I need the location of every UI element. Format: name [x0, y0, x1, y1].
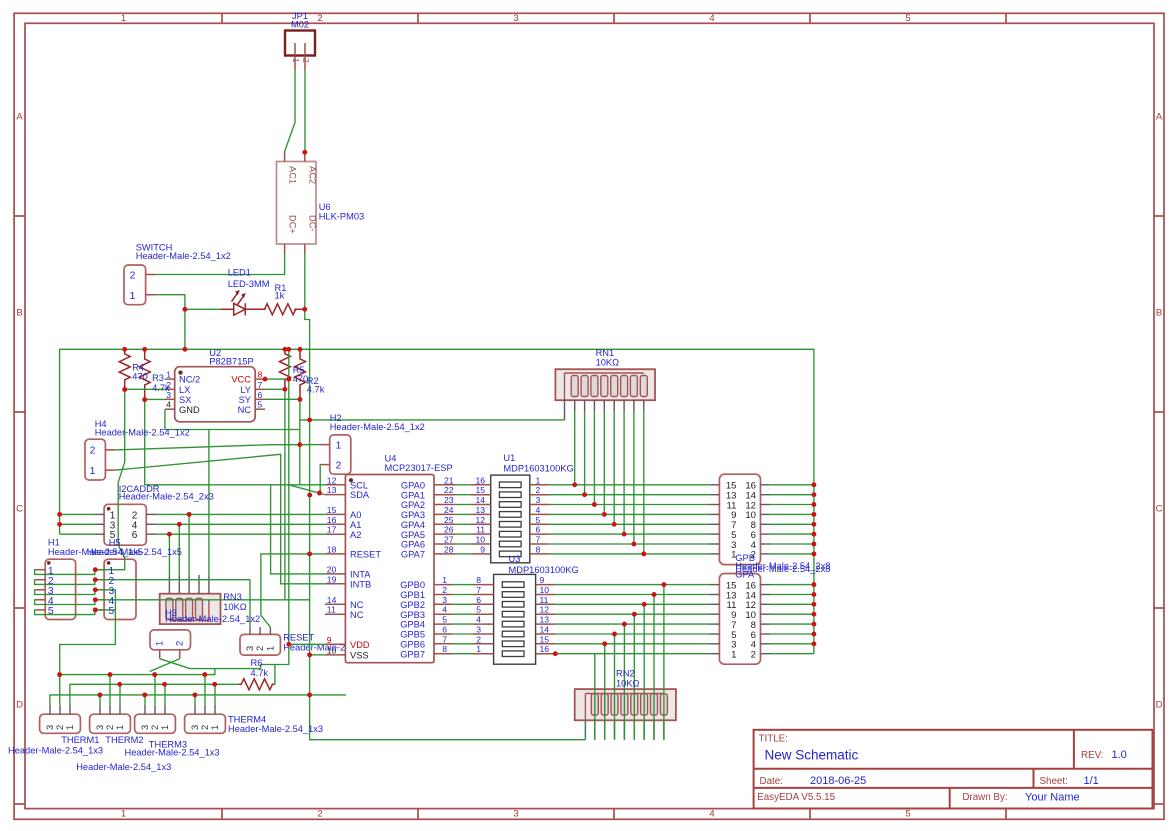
wire	[310, 654, 325, 656]
svg-text:2: 2	[442, 585, 447, 595]
svg-text:D: D	[16, 700, 23, 711]
svg-text:INTB: INTB	[350, 579, 371, 589]
junction	[187, 512, 192, 517]
wire	[550, 543, 710, 545]
wire	[452, 653, 474, 655]
wire	[35, 600, 96, 605]
resistor R4	[119, 349, 130, 389]
svg-text:RN2: RN2	[616, 669, 635, 679]
resistor R5	[279, 349, 290, 389]
svg-text:GND: GND	[179, 405, 200, 415]
svg-text:1: 1	[442, 575, 447, 585]
junction	[142, 347, 147, 352]
wire	[770, 504, 814, 506]
svg-text:1: 1	[476, 644, 481, 654]
svg-text:B: B	[1156, 308, 1162, 319]
title block	[754, 730, 1153, 809]
svg-text:6: 6	[536, 525, 541, 535]
wire	[116, 445, 300, 450]
svg-text:19: 19	[327, 574, 337, 584]
wire	[452, 584, 474, 586]
U4 pin1 marker	[349, 478, 353, 482]
svg-text:21: 21	[444, 475, 454, 485]
header RESET	[240, 634, 280, 655]
header H2	[330, 435, 351, 474]
junction	[811, 532, 816, 537]
wire	[455, 494, 470, 496]
wire	[185, 308, 221, 310]
svg-text:NC: NC	[238, 405, 252, 415]
wire	[60, 349, 814, 653]
svg-text:GPA7: GPA7	[401, 550, 425, 560]
junction	[307, 652, 312, 657]
svg-text:A: A	[16, 112, 23, 123]
svg-text:2: 2	[55, 725, 65, 730]
junction	[811, 622, 816, 627]
resistor array U1 MDP1603100KG	[491, 475, 530, 563]
wire	[156, 523, 325, 525]
wire	[154, 675, 156, 705]
svg-text:GPB6: GPB6	[400, 639, 425, 649]
wire	[249, 580, 251, 627]
svg-text:1: 1	[210, 725, 220, 730]
svg-text:3: 3	[442, 595, 447, 605]
junction	[602, 641, 607, 646]
header GPA 2x8	[719, 574, 760, 665]
wire	[95, 390, 124, 570]
svg-text:DC+: DC+	[288, 215, 298, 234]
svg-text:C: C	[16, 504, 23, 515]
junction	[641, 551, 646, 556]
junction	[631, 542, 636, 547]
svg-text:10KΩ: 10KΩ	[223, 602, 247, 612]
wire	[299, 420, 301, 485]
svg-text:24: 24	[444, 505, 454, 515]
wire	[643, 412, 645, 554]
svg-text:4: 4	[476, 615, 481, 625]
resistor R1	[265, 304, 296, 315]
junction	[592, 502, 597, 507]
junction	[811, 592, 816, 597]
svg-text:THERM1: THERM1	[61, 735, 99, 745]
wire	[663, 585, 665, 740]
svg-text:26: 26	[444, 525, 454, 535]
wire	[455, 553, 470, 555]
svg-text:Header-Male-2.54_1x3: Header-Male-2.54_1x3	[125, 748, 220, 758]
svg-text:1: 1	[291, 58, 301, 63]
svg-text:5: 5	[48, 606, 54, 617]
junction	[97, 692, 102, 697]
wire	[274, 665, 276, 685]
svg-text:5: 5	[905, 13, 910, 24]
svg-text:16: 16	[475, 475, 485, 485]
svg-text:MDP1603100KG: MDP1603100KG	[503, 463, 573, 473]
svg-text:1: 1	[160, 725, 170, 730]
header I2CADDR	[104, 504, 146, 545]
header THERM4	[185, 714, 226, 733]
svg-text:13: 13	[327, 485, 337, 495]
wire	[555, 623, 709, 625]
junction	[811, 632, 816, 637]
svg-text:A: A	[1156, 112, 1163, 123]
junction	[811, 582, 816, 587]
U4 left pins	[325, 484, 346, 486]
wire	[770, 603, 814, 605]
junction	[661, 582, 666, 587]
resistor network RN1 10K	[555, 369, 655, 400]
svg-text:2: 2	[105, 725, 115, 730]
svg-text:2: 2	[751, 650, 756, 661]
RN3 pins	[168, 575, 170, 594]
svg-text:RN3: RN3	[223, 592, 242, 602]
resistor network RN3 10K	[160, 594, 221, 624]
svg-text:INTA: INTA	[350, 570, 371, 580]
junction	[622, 532, 627, 537]
header H5	[104, 559, 136, 619]
junction	[307, 493, 312, 498]
junction	[811, 482, 816, 487]
wire	[208, 430, 210, 575]
svg-text:13: 13	[540, 615, 550, 625]
junction	[612, 522, 617, 527]
header H3	[150, 630, 191, 650]
junction	[167, 532, 172, 537]
wire	[304, 254, 306, 309]
wire	[584, 412, 586, 495]
svg-text:GPB1: GPB1	[400, 590, 425, 600]
wire	[455, 533, 470, 535]
junction	[282, 347, 287, 352]
junction	[553, 651, 558, 656]
wire	[190, 668, 260, 670]
svg-text:17: 17	[327, 525, 337, 535]
wire	[770, 523, 814, 525]
wire	[555, 594, 709, 596]
wire	[164, 684, 166, 705]
wire	[770, 553, 814, 555]
svg-text:8: 8	[442, 644, 447, 654]
junction	[122, 387, 127, 392]
wire	[455, 484, 470, 486]
wire	[550, 484, 710, 486]
U3 pins	[474, 584, 494, 586]
wire	[452, 594, 474, 596]
junction	[177, 522, 182, 527]
svg-text:22: 22	[444, 485, 454, 495]
svg-text:Header-Male-2.54_1x3: Header-Male-2.54_1x3	[76, 762, 171, 772]
svg-text:Header-Male-2.54_1x3: Header-Male-2.54_1x3	[8, 746, 103, 756]
svg-text:2: 2	[336, 461, 342, 472]
junction	[286, 642, 291, 647]
wire	[194, 695, 196, 705]
svg-text:3: 3	[95, 725, 105, 730]
svg-text:2: 2	[301, 58, 311, 63]
svg-text:H1: H1	[48, 538, 60, 548]
wire	[188, 514, 190, 575]
wire	[300, 419, 565, 421]
wire	[452, 603, 474, 605]
junction	[811, 551, 816, 556]
wire	[555, 643, 709, 645]
junction	[612, 632, 617, 637]
junction	[108, 672, 113, 677]
wire	[156, 533, 325, 535]
svg-text:3: 3	[190, 725, 200, 730]
svg-text:1: 1	[536, 475, 541, 485]
junction	[286, 377, 291, 382]
junction	[117, 682, 122, 687]
wire	[150, 659, 180, 672]
svg-text:3: 3	[45, 725, 55, 730]
wire	[452, 643, 474, 645]
wire	[770, 494, 814, 496]
wire	[95, 599, 309, 601]
wire	[109, 675, 111, 705]
svg-text:SCL: SCL	[350, 480, 368, 490]
junction	[142, 397, 147, 402]
junction	[142, 692, 147, 697]
power module U6 HLK-PM03	[277, 162, 317, 245]
svg-text:5: 5	[536, 515, 541, 525]
junction	[307, 417, 312, 422]
junction	[307, 551, 312, 556]
svg-text:10KΩ: 10KΩ	[596, 358, 620, 368]
svg-text:A0: A0	[350, 510, 361, 520]
junction	[602, 512, 607, 517]
svg-text:B: B	[16, 308, 22, 319]
wire	[214, 684, 216, 705]
U4 right pins	[434, 484, 455, 486]
header THERM3	[135, 714, 176, 733]
junction	[811, 641, 816, 646]
resistor R2	[295, 349, 306, 399]
svg-text:Drawn By:: Drawn By:	[962, 792, 1007, 803]
svg-text:LX: LX	[179, 385, 190, 395]
svg-text:SX: SX	[179, 395, 191, 405]
svg-text:2: 2	[317, 809, 322, 820]
junction	[298, 347, 303, 352]
svg-text:1: 1	[121, 13, 126, 24]
wire	[550, 504, 710, 506]
junction	[152, 672, 157, 677]
svg-text:4: 4	[536, 505, 541, 515]
svg-text:R3: R3	[152, 373, 164, 383]
svg-text:4: 4	[709, 13, 714, 24]
RN2 pins	[584, 720, 586, 739]
wire	[125, 388, 165, 390]
wire	[614, 634, 616, 740]
svg-text:4: 4	[166, 400, 171, 410]
svg-text:GPA0: GPA0	[401, 480, 425, 490]
wire	[770, 513, 814, 515]
svg-text:VCC: VCC	[231, 375, 251, 385]
svg-text:GPB3: GPB3	[400, 610, 425, 620]
junction	[93, 567, 98, 572]
wire	[60, 669, 215, 675]
wire	[319, 465, 321, 494]
svg-text:GPB7: GPB7	[400, 649, 425, 659]
svg-text:A2: A2	[350, 530, 361, 540]
svg-text:LY: LY	[240, 385, 251, 395]
svg-text:Header-Male-2.54_2x3: Header-Male-2.54_2x3	[119, 492, 214, 502]
svg-text:16: 16	[540, 644, 550, 654]
svg-text:NC/2: NC/2	[179, 375, 200, 385]
svg-text:RN1: RN1	[596, 348, 615, 358]
junction	[57, 672, 62, 677]
svg-text:1: 1	[115, 725, 125, 730]
svg-text:9: 9	[327, 635, 332, 645]
svg-text:2: 2	[200, 725, 210, 730]
svg-text:REV:: REV:	[1081, 750, 1104, 761]
wire	[284, 389, 286, 600]
svg-text:20: 20	[327, 564, 337, 574]
wire	[265, 399, 300, 420]
svg-text:Your Name: Your Name	[1025, 792, 1080, 804]
svg-text:EasyEDA V5.5.15: EasyEDA V5.5.15	[757, 792, 835, 803]
wire	[144, 695, 146, 705]
svg-text:1: 1	[90, 466, 96, 477]
wire	[633, 614, 635, 740]
wire	[156, 254, 285, 275]
svg-text:10: 10	[475, 535, 485, 545]
junction	[811, 512, 816, 517]
junction	[192, 692, 197, 697]
U1 pins	[470, 484, 490, 486]
junction	[57, 522, 62, 527]
svg-text:3: 3	[476, 625, 481, 635]
wire	[289, 485, 325, 495]
svg-text:VSS: VSS	[350, 651, 369, 661]
wire	[300, 444, 320, 446]
svg-text:AC2: AC2	[308, 166, 318, 184]
svg-text:1: 1	[166, 370, 171, 380]
junction	[93, 587, 98, 592]
svg-text:4: 4	[442, 605, 447, 615]
wire	[455, 543, 470, 545]
wire	[271, 485, 325, 574]
svg-text:11: 11	[476, 525, 485, 535]
RN1 pins	[564, 400, 566, 420]
svg-text:12: 12	[475, 515, 485, 525]
junction	[811, 602, 816, 607]
svg-text:Sheet:: Sheet:	[1040, 776, 1068, 787]
wire	[95, 609, 115, 611]
svg-text:1: 1	[65, 725, 75, 730]
svg-text:7: 7	[536, 535, 541, 545]
junction	[212, 682, 217, 687]
wire	[165, 409, 300, 429]
wire	[285, 71, 295, 152]
svg-text:GPB5: GPB5	[400, 630, 425, 640]
wire	[261, 349, 289, 664]
wire	[260, 665, 262, 669]
svg-text:12: 12	[540, 605, 550, 615]
wire	[623, 412, 625, 534]
svg-text:LED-3MM: LED-3MM	[228, 279, 270, 289]
junction	[297, 397, 302, 402]
wire	[452, 613, 474, 615]
svg-text:25: 25	[444, 515, 454, 525]
wire	[770, 643, 814, 645]
I2CADDR pin1 marker	[107, 507, 111, 511]
wire	[99, 695, 101, 705]
svg-text:8: 8	[258, 370, 263, 380]
resistor array U3 MDP1603100KG	[494, 574, 536, 664]
svg-text:5: 5	[905, 809, 910, 820]
wire	[204, 675, 206, 705]
svg-text:15: 15	[475, 485, 485, 495]
H1 pin1 marker	[47, 561, 51, 565]
svg-text:9: 9	[480, 544, 485, 554]
wire	[261, 554, 325, 627]
svg-text:New Schematic: New Schematic	[765, 748, 859, 763]
wire	[770, 543, 814, 545]
wire	[555, 613, 709, 615]
svg-text:HLK-PM03: HLK-PM03	[319, 212, 364, 222]
svg-text:14: 14	[540, 625, 550, 635]
wire	[60, 523, 95, 525]
svg-text:GPA4: GPA4	[401, 520, 425, 530]
H5 pin1 marker	[107, 561, 111, 565]
wire	[305, 309, 586, 739]
wire	[604, 644, 606, 740]
svg-text:1: 1	[130, 291, 136, 302]
svg-text:3: 3	[513, 13, 518, 24]
junction	[582, 492, 587, 497]
wire	[770, 584, 814, 586]
svg-text:LED1: LED1	[228, 268, 251, 278]
svg-text:11: 11	[327, 605, 336, 615]
wire	[50, 695, 346, 705]
svg-text:RESET: RESET	[283, 633, 314, 643]
svg-text:GPA: GPA	[735, 570, 755, 580]
svg-text:6: 6	[132, 530, 138, 541]
wire	[633, 412, 635, 544]
wire	[35, 590, 96, 595]
wire R1 lead	[294, 308, 304, 310]
svg-text:MDP1603100KG: MDP1603100KG	[509, 565, 579, 575]
svg-text:12: 12	[327, 475, 337, 485]
U2 right pins	[255, 378, 265, 380]
svg-text:2: 2	[175, 641, 185, 646]
svg-text:5: 5	[442, 615, 447, 625]
wire	[184, 309, 186, 349]
wire	[290, 643, 325, 645]
svg-text:C: C	[1156, 504, 1163, 515]
svg-text:5: 5	[109, 606, 115, 617]
junction	[652, 592, 657, 597]
svg-text:NC: NC	[350, 600, 364, 610]
junction	[93, 577, 98, 582]
svg-text:16: 16	[327, 515, 337, 525]
wire	[770, 623, 814, 625]
wire	[156, 513, 325, 515]
svg-text:Header-Male-2.54_1x2: Header-Male-2.54_1x2	[330, 422, 425, 432]
junction	[622, 622, 627, 627]
svg-text:TITLE:: TITLE:	[759, 734, 788, 745]
junction	[307, 692, 312, 697]
resistor R3	[139, 349, 150, 399]
resistor network RN2 10K	[575, 689, 676, 720]
svg-text:DC-: DC-	[308, 215, 318, 232]
wire	[623, 624, 625, 740]
chip U4 MCP23017-ESP	[345, 475, 434, 663]
wire	[770, 484, 814, 486]
junction	[302, 150, 307, 155]
wire	[555, 653, 709, 655]
junction	[297, 442, 302, 447]
wire	[35, 570, 96, 575]
